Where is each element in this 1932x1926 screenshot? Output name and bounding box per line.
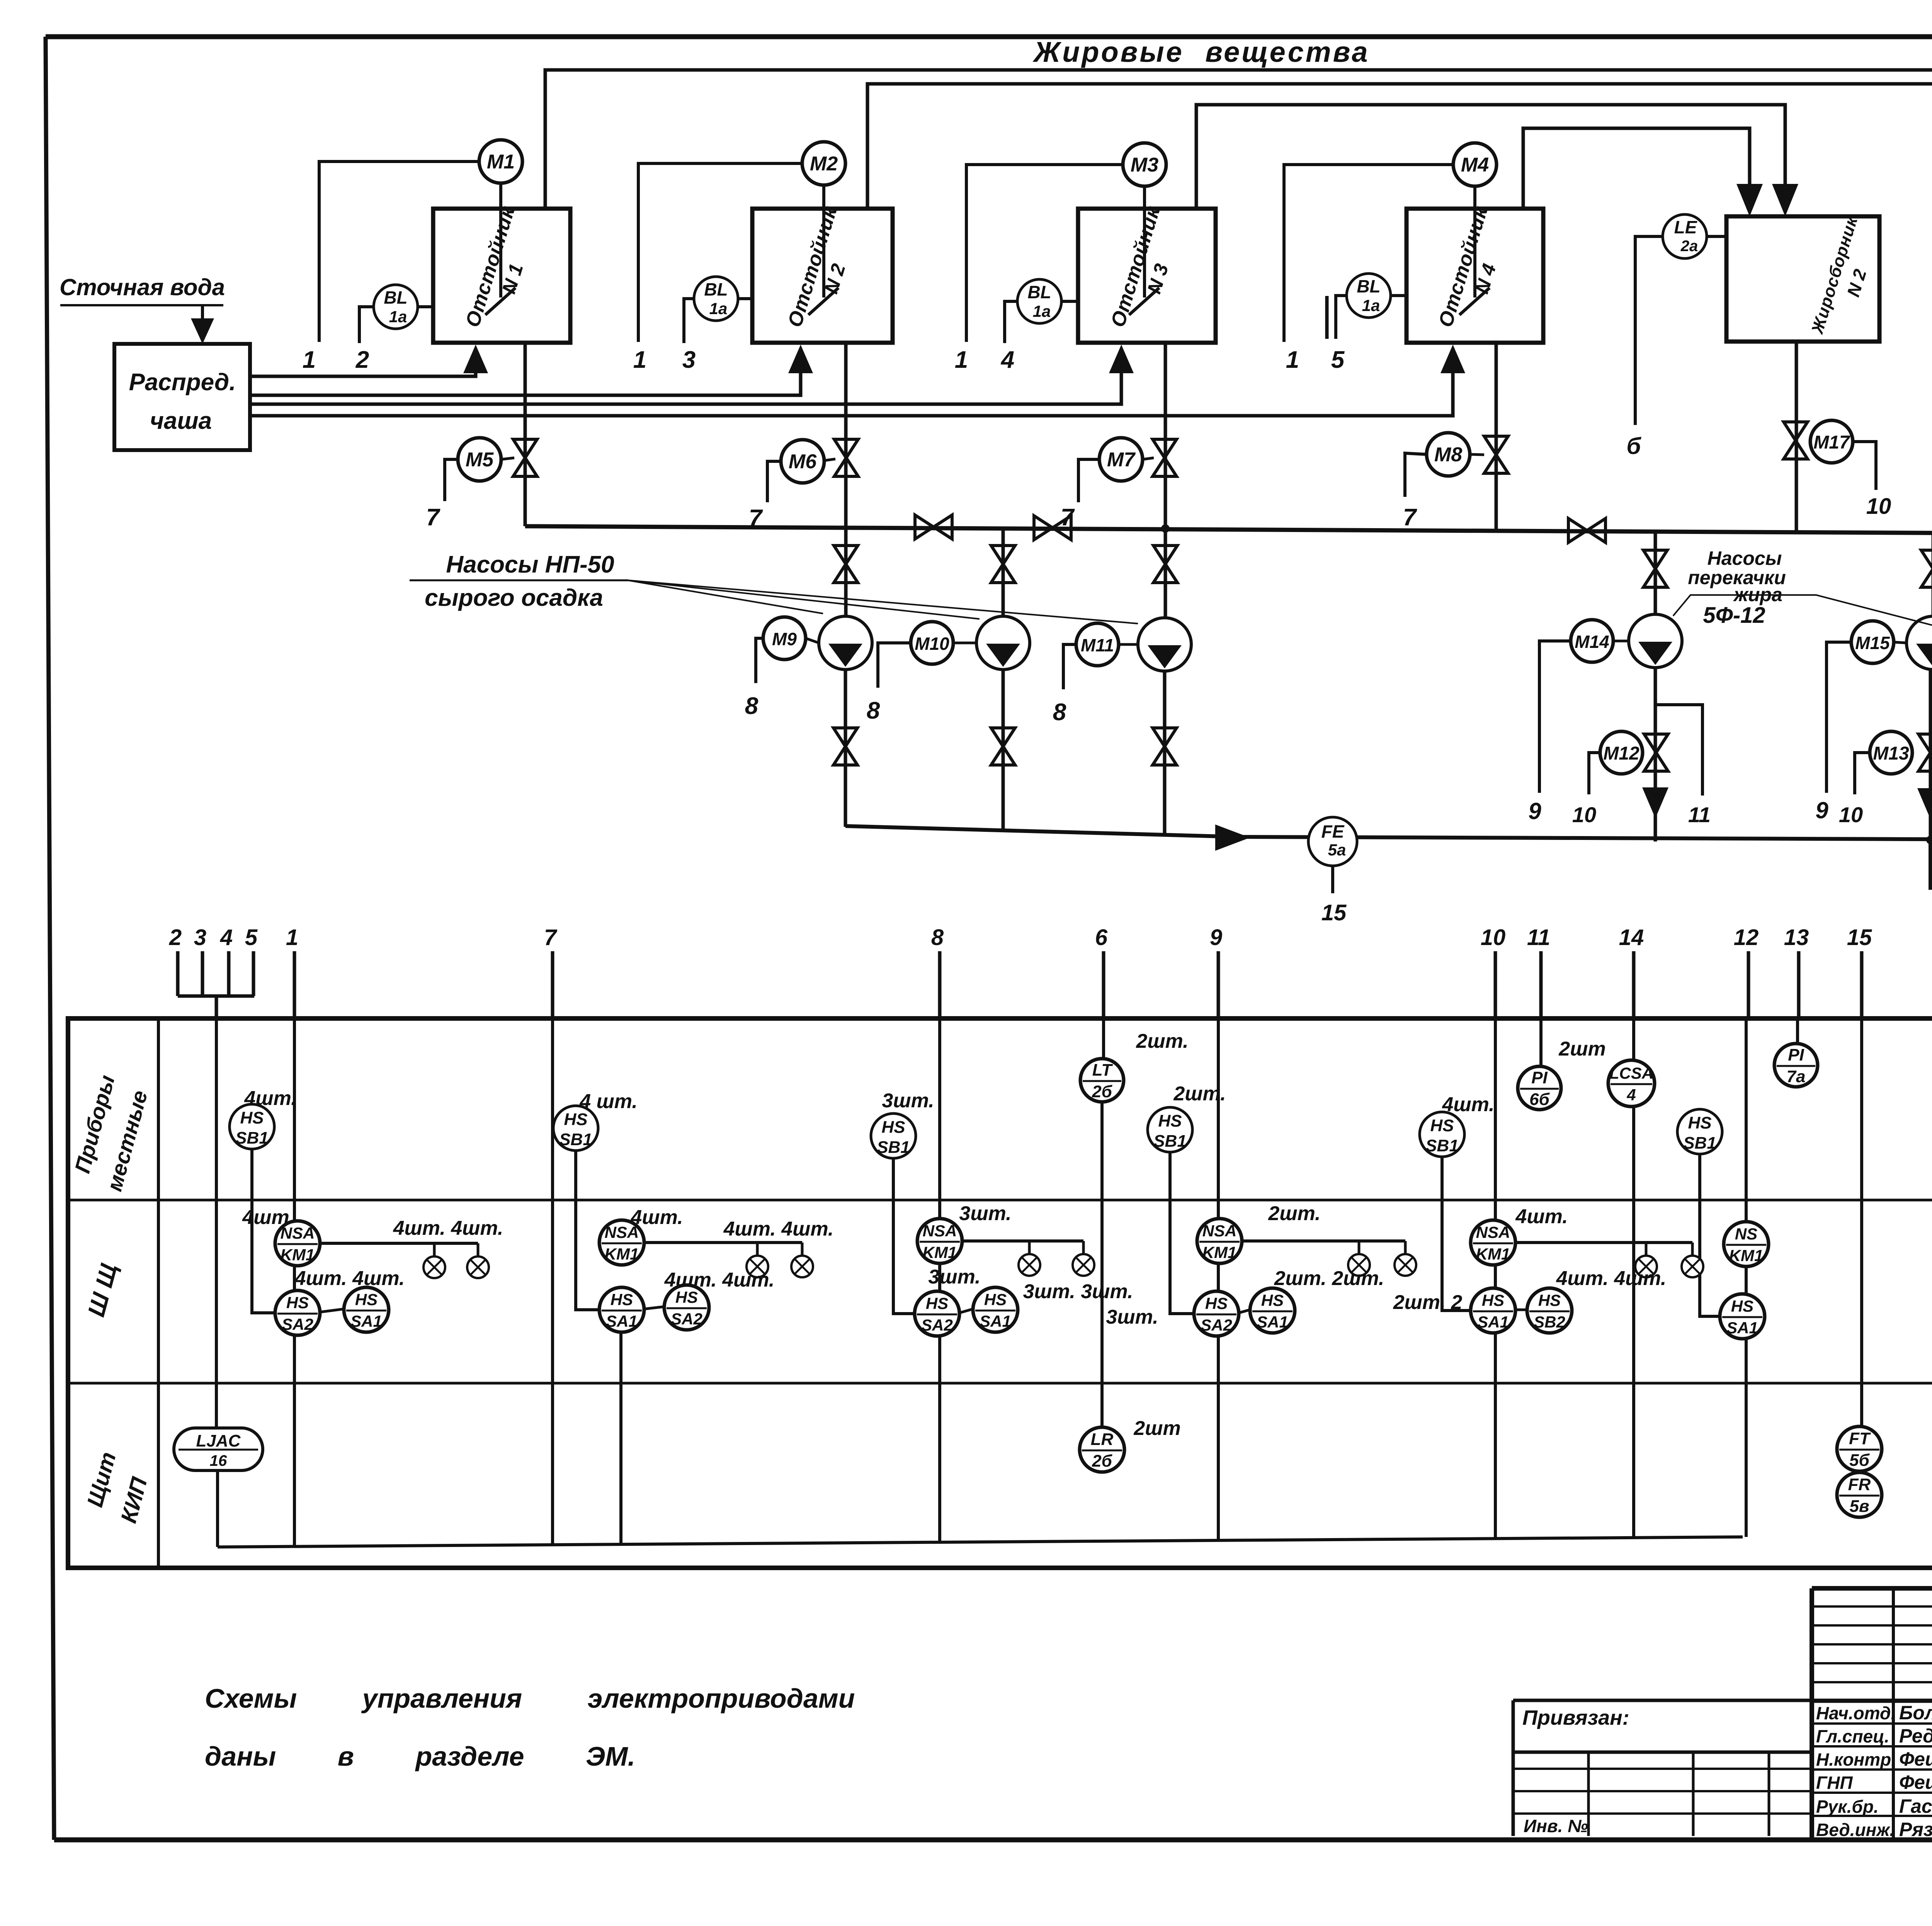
- wire M15 link: [1894, 642, 1906, 643]
- recorder FR 5в: [1837, 1472, 1882, 1517]
- wire M1 stem into tank: [499, 183, 502, 297]
- wire drop line 1: [293, 951, 296, 1020]
- title block frame: [1812, 1586, 1932, 1591]
- pushbutton HS SB1 group1: [230, 1104, 274, 1149]
- svg-text:KM1: KM1: [605, 1245, 639, 1263]
- wire line 10 through table: [1494, 1020, 1497, 1539]
- wire SB1 stem group1: [252, 1149, 275, 1313]
- svg-text:12: 12: [1734, 925, 1759, 950]
- svg-text:4шт. 4шт.: 4шт. 4шт.: [664, 1269, 775, 1291]
- drawing frame border: [46, 34, 1932, 39]
- wire M12 stub 10: [1589, 753, 1600, 794]
- svg-text:Инв. №: Инв. №: [1524, 1816, 1588, 1836]
- svg-text:3: 3: [682, 347, 696, 373]
- wire drop line 13: [1797, 951, 1801, 1020]
- svg-text:5б: 5б: [1849, 1451, 1870, 1470]
- starter NSA KM1 group4: [1197, 1219, 1242, 1263]
- tank Жиросборник N2: [1726, 216, 1879, 342]
- wire tank1 outlet: [524, 343, 527, 526]
- wire riser to SA1 group2: [619, 1332, 622, 1545]
- svg-text:BL: BL: [1357, 276, 1380, 296]
- svg-text:8: 8: [867, 697, 880, 724]
- box Распред. чаша: [114, 344, 250, 450]
- svg-text:Рук.бр.: Рук.бр.: [1816, 1797, 1879, 1817]
- wire drop line 10: [1494, 951, 1497, 1020]
- svg-text:11: 11: [1688, 802, 1711, 827]
- svg-text:15: 15: [1321, 900, 1347, 925]
- pushbutton HS SB1 group4: [1148, 1107, 1192, 1152]
- tank Отстойник N3: [1078, 209, 1216, 343]
- svg-text:4: 4: [220, 925, 233, 950]
- wire M1 signal line to stub 1: [319, 161, 479, 342]
- svg-text:SB1: SB1: [1683, 1134, 1716, 1153]
- svg-text:1a: 1a: [1362, 296, 1380, 314]
- switch HS SA2 group3: [915, 1291, 959, 1336]
- starter NSA KM1 group2: [599, 1220, 644, 1265]
- wire M9 discharge: [844, 670, 847, 827]
- wire SA link group3: [959, 1309, 973, 1313]
- tank Отстойник N4: [1406, 209, 1543, 343]
- svg-text:HS: HS: [1261, 1291, 1284, 1309]
- wire branch to pump M10: [1002, 527, 1005, 616]
- wire line 12 through table: [1745, 1020, 1748, 1537]
- svg-text:4шт.: 4шт.: [630, 1206, 683, 1229]
- wire line 8 through table: [938, 1020, 941, 1543]
- table row separator 1: [68, 1199, 1932, 1202]
- lamp group2.2: [801, 1243, 804, 1256]
- svg-text:SA2: SA2: [282, 1315, 313, 1333]
- valve above pump M14: [1643, 550, 1667, 587]
- svg-text:Схемы управления электропривод: Схемы управления электроприводами: [205, 1683, 855, 1714]
- svg-text:1: 1: [1286, 347, 1299, 373]
- svg-text:Рязанова: Рязанова: [1899, 1819, 1932, 1840]
- level switch BL 1a (tank 1): [374, 285, 418, 329]
- pump M10: [976, 616, 1030, 670]
- svg-text:M3: M3: [1131, 154, 1158, 176]
- svg-text:10: 10: [1866, 494, 1891, 519]
- pump M14: [1629, 614, 1682, 668]
- motor M8: [1427, 433, 1470, 476]
- svg-text:SB2: SB2: [1534, 1313, 1565, 1331]
- svg-text:4шт. 4шт.: 4шт. 4шт.: [393, 1217, 503, 1239]
- svg-text:HS: HS: [1205, 1294, 1228, 1312]
- wire branch to pump M15: [1932, 532, 1932, 616]
- switch HS SB2 group5: [1527, 1288, 1572, 1333]
- wire M15 stub 9: [1827, 642, 1851, 793]
- wire BL stub 2: [359, 307, 374, 343]
- svg-text:NSA: NSA: [923, 1222, 957, 1240]
- svg-text:2шт: 2шт: [1133, 1417, 1180, 1440]
- wire collector опорожнения: [845, 826, 1932, 841]
- svg-text:HS: HS: [611, 1290, 633, 1309]
- wire feed line to tank 3: [250, 371, 1121, 404]
- svg-text:M12: M12: [1603, 743, 1639, 764]
- svg-text:2шт.: 2шт.: [1268, 1202, 1320, 1225]
- valve on manifold 1: [915, 515, 952, 539]
- svg-text:4шт. 4шт.: 4шт. 4шт.: [294, 1267, 405, 1290]
- wire M3 stem into tank: [1143, 186, 1146, 297]
- svg-text:SA1: SA1: [1726, 1319, 1758, 1337]
- wire line 13 to PI7a: [1796, 1020, 1799, 1043]
- starter NS KM1 group6: [1724, 1222, 1769, 1266]
- svg-text:6: 6: [1095, 925, 1108, 950]
- switch HS SA2 group4: [1194, 1291, 1239, 1336]
- starter NSA KM1 group1: [275, 1221, 320, 1266]
- wire LE2a stub б: [1635, 236, 1663, 425]
- svg-text:KM1: KM1: [923, 1243, 957, 1261]
- svg-text:HS: HS: [240, 1108, 264, 1127]
- svg-text:LR: LR: [1091, 1430, 1114, 1449]
- wire drop line 2: [176, 951, 180, 996]
- node junction M15 discharge: [1926, 836, 1932, 844]
- arrow M14 discharge into line: [1642, 787, 1668, 818]
- svg-text:KM1: KM1: [1202, 1243, 1237, 1261]
- row header Щит КИП: [80, 1449, 156, 1526]
- svg-text:SA1: SA1: [350, 1312, 382, 1330]
- lamp group1.2: [477, 1243, 480, 1256]
- svg-text:5в: 5в: [1849, 1497, 1869, 1516]
- svg-text:5Ф-12: 5Ф-12: [1703, 603, 1765, 628]
- svg-text:3шт.: 3шт.: [928, 1266, 980, 1288]
- wire M14 stub 9: [1539, 641, 1571, 793]
- wire drop line 5: [252, 951, 255, 996]
- wire M14 link: [1613, 640, 1629, 643]
- svg-text:M10: M10: [915, 634, 949, 654]
- wire M10 discharge: [1002, 670, 1005, 831]
- motor M2: [802, 142, 845, 185]
- wire drop line 3: [201, 951, 204, 996]
- row header Приборы местные: [68, 1073, 154, 1194]
- wire tank4 outlet: [1495, 343, 1498, 529]
- arrow into Жиросборник N2 right: [1772, 184, 1798, 216]
- valve above pump M10: [991, 546, 1015, 583]
- valve on Ж2 outlet: [1784, 422, 1808, 459]
- valve above pump M9: [834, 546, 858, 583]
- svg-text:PI: PI: [1531, 1068, 1548, 1087]
- valve on tank4 outlet: [1484, 436, 1508, 473]
- wire SA link group1: [320, 1309, 344, 1312]
- svg-text:BL: BL: [384, 287, 407, 308]
- valve below pump M10: [991, 728, 1015, 765]
- wire M10 link: [953, 642, 976, 644]
- wire M15 discharge: [1929, 670, 1932, 842]
- svg-text:M6: M6: [789, 450, 817, 473]
- wire BL to tank 1: [418, 305, 433, 308]
- arrow feed into tank 3: [1109, 345, 1134, 373]
- table header column line: [157, 1018, 160, 1568]
- title block col lines: [1892, 1588, 1895, 1840]
- lamp group1.1: [433, 1243, 436, 1256]
- wire M13 stub 10: [1855, 753, 1870, 794]
- level switch BL 1a (tank 4): [1347, 274, 1391, 318]
- svg-text:2: 2: [169, 925, 182, 950]
- wire M14 discharge: [1654, 668, 1657, 841]
- wire fat line from tank4 to Жиросборник N2: [1523, 128, 1750, 208]
- table row separator 2: [68, 1382, 1932, 1385]
- svg-text:Привязан:: Привязан:: [1522, 1706, 1629, 1729]
- wire feed line to tank 4: [250, 371, 1453, 416]
- svg-text:SA2: SA2: [671, 1310, 702, 1328]
- svg-text:7: 7: [1403, 504, 1417, 531]
- svg-text:M11: M11: [1081, 635, 1114, 655]
- svg-text:HS: HS: [984, 1290, 1007, 1309]
- starter NSA KM1 group5: [1471, 1220, 1515, 1265]
- box Привязан: [1513, 1699, 1812, 1702]
- wire M4 signal line to stub 1: [1284, 165, 1453, 342]
- pushbutton HS SB1 group3: [871, 1113, 916, 1158]
- svg-text:даны в разделе ЭМ.: даны в разделе ЭМ.: [205, 1741, 635, 1771]
- title block row main divider: [1812, 1699, 1932, 1703]
- svg-text:Распред.: Распред.: [129, 369, 236, 396]
- wire drop line 11: [1539, 951, 1543, 1020]
- svg-text:8: 8: [1053, 699, 1066, 726]
- svg-text:HS: HS: [286, 1294, 309, 1312]
- svg-text:SA1: SA1: [1257, 1313, 1288, 1331]
- svg-text:FR: FR: [1848, 1475, 1871, 1494]
- pump M11: [1138, 618, 1191, 671]
- motor M5: [458, 438, 501, 481]
- svg-text:3: 3: [194, 925, 206, 950]
- motor M9: [763, 617, 806, 660]
- svg-text:4шт. 4шт.: 4шт. 4шт.: [723, 1218, 834, 1240]
- valve M13 on M15 discharge: [1918, 734, 1932, 771]
- wire SA link group5: [1515, 1309, 1527, 1311]
- wire lamp bus group5: [1515, 1241, 1692, 1244]
- motor M6: [781, 440, 824, 483]
- row header ЩУ: [83, 1261, 123, 1319]
- wire сточная вода inlet arrow: [201, 305, 204, 321]
- svg-text:SB1: SB1: [877, 1138, 910, 1157]
- svg-text:1: 1: [633, 347, 646, 373]
- svg-text:10: 10: [1572, 802, 1596, 827]
- table frame: [68, 1018, 1932, 1568]
- svg-text:LJAC: LJAC: [196, 1431, 241, 1450]
- pushbutton HS SB1 group6: [1677, 1109, 1722, 1154]
- lamp group3.1: [1028, 1241, 1031, 1254]
- svg-text:1a: 1a: [1033, 302, 1051, 320]
- svg-text:SA2: SA2: [1201, 1316, 1232, 1334]
- motor M14: [1571, 620, 1613, 662]
- node junction at tank3 outlet: [1161, 524, 1170, 533]
- svg-text:M5: M5: [466, 449, 494, 471]
- svg-text:8: 8: [745, 693, 759, 719]
- motor M1: [479, 140, 522, 183]
- svg-text:M17: M17: [1813, 432, 1850, 453]
- wire M2 stem into tank: [822, 185, 825, 297]
- wire SA link group2: [644, 1307, 664, 1309]
- svg-text:4шт. 4шт.: 4шт. 4шт.: [1556, 1267, 1667, 1290]
- svg-text:1a: 1a: [709, 299, 728, 318]
- wire fat line from tank3 to Жиросборник N2: [1196, 105, 1785, 208]
- wire M17 stub 10: [1853, 442, 1876, 490]
- svg-text:Болотов: Болотов: [1899, 1702, 1932, 1724]
- level switch BL 1a (tank 3): [1017, 279, 1061, 323]
- controller LCSA 4: [1608, 1060, 1655, 1107]
- wire M10 stub 8: [878, 643, 911, 688]
- svg-text:3шт. 3шт.: 3шт. 3шт.: [1023, 1280, 1133, 1303]
- wire drop line 14: [1632, 951, 1636, 1020]
- valve above pump M11: [1153, 546, 1177, 583]
- svg-text:SB1: SB1: [235, 1129, 269, 1147]
- wire line 14 through table: [1632, 1020, 1635, 1538]
- wire line 11 to PI6б: [1539, 1020, 1543, 1066]
- motor M13: [1870, 731, 1912, 774]
- switch HS SA1 group3: [973, 1287, 1018, 1332]
- svg-text:3шт.: 3шт.: [1106, 1306, 1158, 1328]
- svg-text:KM1: KM1: [1476, 1245, 1510, 1263]
- wire BL stub 5: [1336, 296, 1347, 339]
- wire SB1 stem group5: [1442, 1157, 1471, 1311]
- wire SB1 stem group2: [576, 1151, 599, 1310]
- arrow feed into tank 4: [1440, 345, 1465, 373]
- svg-text:Нач.отд.: Нач.отд.: [1816, 1703, 1896, 1723]
- wire tank2 outlet down to pump M9: [844, 342, 848, 616]
- svg-text:HS: HS: [564, 1110, 587, 1129]
- motor M3: [1123, 143, 1166, 186]
- level sensor LE 2a (Жиросборник N2): [1663, 214, 1707, 258]
- svg-text:Насосы НП-50: Насосы НП-50: [446, 551, 614, 578]
- wire Жиросборник N2 outlet: [1795, 342, 1798, 532]
- level switch BL 1a (tank 2): [694, 277, 738, 321]
- svg-text:4шт.: 4шт.: [1515, 1205, 1568, 1228]
- svg-text:M4: M4: [1461, 154, 1489, 176]
- svg-text:4шт.: 4шт.: [244, 1087, 296, 1110]
- svg-text:KM1: KM1: [1729, 1246, 1764, 1265]
- svg-text:HS: HS: [1482, 1291, 1504, 1309]
- svg-text:M15: M15: [1855, 633, 1890, 653]
- svg-text:4шт.: 4шт.: [1442, 1093, 1494, 1116]
- svg-text:SA2: SA2: [921, 1316, 953, 1334]
- motor M4: [1453, 143, 1497, 186]
- svg-text:SA1: SA1: [1477, 1313, 1509, 1331]
- svg-text:14: 14: [1619, 925, 1644, 950]
- svg-text:HS: HS: [1430, 1116, 1454, 1135]
- svg-text:Сточная вода: Сточная вода: [60, 274, 225, 300]
- svg-text:Фешин: Фешин: [1899, 1748, 1932, 1770]
- svg-text:M1: M1: [487, 151, 515, 173]
- wire button bus 2-5: [178, 994, 254, 998]
- svg-text:16: 16: [210, 1452, 227, 1469]
- motor M15: [1851, 621, 1894, 663]
- svg-text:чаша: чаша: [150, 408, 212, 434]
- svg-text:2a: 2a: [1680, 238, 1698, 255]
- wire BL stub 3: [684, 299, 694, 343]
- svg-text:5: 5: [1331, 347, 1345, 373]
- motor M17: [1810, 420, 1853, 463]
- lamp group4.1: [1358, 1241, 1361, 1254]
- valve on tank1 outlet: [513, 439, 537, 476]
- wire M4 stem into tank: [1473, 186, 1476, 297]
- svg-text:4 шт.: 4 шт.: [579, 1090, 638, 1113]
- leader lines to pumps НП-50: [628, 580, 823, 614]
- svg-text:13: 13: [1784, 925, 1809, 950]
- svg-text:HS: HS: [1538, 1291, 1561, 1309]
- svg-text:LE: LE: [1674, 217, 1697, 237]
- wire SB1 stem group4: [1170, 1152, 1194, 1314]
- svg-text:1: 1: [955, 347, 968, 373]
- pump M15: [1906, 616, 1932, 670]
- lamp group2.1: [756, 1243, 759, 1256]
- svg-text:SA1: SA1: [606, 1312, 638, 1330]
- title block name rows: [1812, 1722, 1932, 1725]
- wire fat line from tank2 to Жиросборник N1: [867, 84, 1932, 208]
- svg-text:M14: M14: [1575, 632, 1609, 652]
- switch HS SA2 group1: [275, 1290, 320, 1335]
- svg-text:HS: HS: [926, 1294, 948, 1312]
- svg-text:Насосы: Насосы: [1708, 547, 1782, 569]
- svg-text:4: 4: [1000, 347, 1014, 373]
- svg-text:ГНП: ГНП: [1816, 1773, 1853, 1793]
- svg-text:Н.контр.: Н.контр.: [1816, 1749, 1896, 1770]
- arrow on collector: [1215, 824, 1250, 851]
- wire SB1 stem group3: [893, 1158, 915, 1314]
- wire line 7 through table: [551, 1020, 554, 1545]
- wire drop line 9: [1217, 951, 1220, 1020]
- gauge PI 7a: [1774, 1044, 1818, 1087]
- transmitter LT 2б: [1080, 1059, 1124, 1102]
- motor M10: [911, 622, 953, 664]
- svg-text:8: 8: [931, 925, 944, 950]
- switch HS SA1 group1: [344, 1287, 389, 1332]
- pump M9: [819, 616, 872, 670]
- wire tank3 outlet down to pump M11: [1164, 343, 1167, 618]
- svg-text:LT: LT: [1092, 1061, 1113, 1079]
- wire feed line to tank 2: [250, 371, 801, 395]
- svg-text:5: 5: [245, 925, 258, 950]
- wire сырого осадка line: [1930, 840, 1932, 888]
- svg-text:2шт. 2шт.: 2шт. 2шт.: [1274, 1267, 1384, 1290]
- svg-text:Гасунянц: Гасунянц: [1899, 1795, 1932, 1817]
- svg-text:6б: 6б: [1529, 1090, 1550, 1109]
- svg-text:10: 10: [1481, 925, 1506, 950]
- switch HS SA1 group5: [1471, 1288, 1515, 1333]
- wire M11 link: [1119, 643, 1138, 646]
- svg-text:M9: M9: [772, 629, 797, 649]
- wire line 6 to LT: [1102, 1020, 1105, 1059]
- leader line 5Ф-12 pumps: [1673, 595, 1932, 625]
- wire line 2-5 into table: [215, 1020, 218, 1428]
- wire SB1 stem group6: [1700, 1154, 1720, 1316]
- motor M7: [1099, 438, 1143, 481]
- wire fat line from tank1 to Жиросборник N1: [545, 70, 1932, 209]
- flow element FE 5a: [1308, 817, 1357, 866]
- wire M3 signal line to stub 1: [966, 165, 1123, 342]
- svg-text:Фешин: Фешин: [1899, 1771, 1932, 1793]
- wire M9 link: [806, 638, 819, 643]
- svg-text:1a: 1a: [389, 308, 407, 326]
- svg-text:7: 7: [544, 925, 558, 950]
- wire branch to pump M14: [1654, 531, 1657, 614]
- svg-text:M13: M13: [1873, 743, 1909, 764]
- wire line 9 through table: [1217, 1020, 1220, 1541]
- svg-text:2шт: 2шт: [1558, 1038, 1605, 1060]
- lamp group5.2: [1691, 1243, 1694, 1256]
- svg-text:2шт. 2: 2шт. 2: [1393, 1291, 1463, 1314]
- gauge PI 6б: [1518, 1066, 1561, 1110]
- starter NSA KM1 group3: [917, 1219, 962, 1263]
- tank Отстойник N2: [752, 209, 893, 343]
- wire M7 stub 7: [1078, 459, 1099, 502]
- wire BL stub 4: [1005, 301, 1017, 343]
- svg-text:сырого осадка: сырого осадка: [425, 585, 603, 611]
- wire M11 stub 8: [1063, 644, 1076, 689]
- wire line 6 LT to LR: [1100, 1102, 1104, 1428]
- wire M15 branch stub 11: [1930, 705, 1932, 796]
- wire drop line 7: [551, 951, 554, 1020]
- wire M5 stub 7: [445, 459, 458, 501]
- switch HS SA2 group2: [664, 1285, 709, 1330]
- svg-text:5a: 5a: [1328, 841, 1346, 859]
